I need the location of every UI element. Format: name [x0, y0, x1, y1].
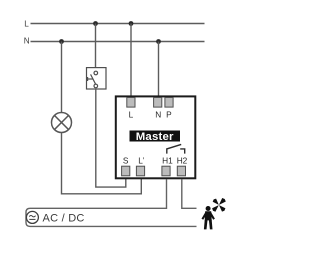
svg-text:N: N: [24, 37, 30, 46]
terminal P: [165, 98, 173, 108]
svg-text:AC / DC: AC / DC: [43, 212, 85, 224]
motion star icon: [212, 198, 226, 212]
wire from L rail down to switch: [95, 24, 97, 68]
svg-text:N: N: [155, 110, 161, 120]
lamp E1: [52, 113, 72, 133]
junction dot on L rail (switch feed): [93, 21, 98, 26]
AC/DC supply symbol circle: [26, 211, 38, 223]
Master name plate: [130, 131, 181, 144]
svg-text:L: L: [129, 110, 134, 120]
svg-text:H2: H2: [177, 155, 188, 165]
wire L rail: [31, 23, 205, 25]
master device box U1: [116, 96, 196, 178]
junction dot on N rail (device N feed): [156, 39, 161, 44]
terminal L: [127, 98, 135, 108]
wire H1 to AC/DC unit (forms top edge of supply box): [26, 179, 197, 226]
terminal L': [136, 166, 144, 176]
svg-text:Master: Master: [136, 131, 174, 143]
svg-text:P: P: [166, 110, 172, 120]
junction dot on N rail (lamp feed): [59, 39, 64, 44]
wire from N rail down to terminal N: [158, 42, 160, 99]
wire switch to S terminal: [96, 89, 126, 187]
terminal N: [154, 98, 162, 108]
svg-text:S: S: [123, 155, 129, 165]
switch S1 (pushbutton): [87, 68, 107, 89]
person icon (presence detector): [202, 206, 215, 229]
svg-text:L’: L’: [138, 155, 144, 165]
terminal H1: [162, 166, 170, 176]
terminal S: [122, 166, 130, 176]
wire lamp to L' terminal: [62, 133, 142, 194]
wire from L rail down to terminal L: [130, 24, 132, 99]
wire from N rail down to lamp: [61, 42, 63, 113]
junction dot on L rail (device L feed): [129, 21, 134, 26]
svg-text:H1: H1: [162, 155, 173, 165]
terminal H2: [177, 166, 185, 176]
wire N rail: [31, 41, 205, 43]
wire H2 stub toward detector: [182, 179, 197, 208]
svg-text:L: L: [24, 20, 29, 29]
relay contact K1 (between H1 and H2): [167, 144, 185, 153]
